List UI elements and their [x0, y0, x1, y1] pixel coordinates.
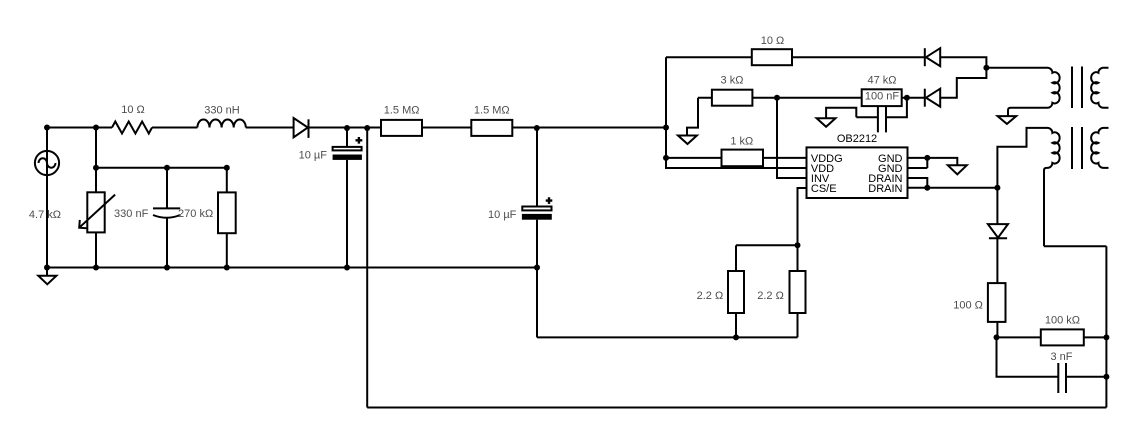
- svg-text:10 Ω: 10 Ω: [121, 104, 145, 116]
- svg-text:10 µF: 10 µF: [299, 150, 328, 162]
- svg-text:47 kΩ: 47 kΩ: [867, 75, 896, 87]
- svg-text:CS/E: CS/E: [811, 183, 837, 195]
- svg-text:100 Ω: 100 Ω: [953, 299, 983, 311]
- svg-text:1.5 MΩ: 1.5 MΩ: [384, 104, 420, 116]
- svg-text:100 kΩ: 100 kΩ: [1045, 314, 1080, 326]
- svg-text:330 nF: 330 nF: [114, 208, 149, 220]
- svg-text:2.2 Ω: 2.2 Ω: [697, 290, 724, 302]
- svg-text:OB2212: OB2212: [837, 133, 877, 145]
- svg-text:1.5 MΩ: 1.5 MΩ: [474, 104, 510, 116]
- svg-text:2.2 Ω: 2.2 Ω: [757, 290, 784, 302]
- svg-text:3 kΩ: 3 kΩ: [721, 75, 744, 87]
- svg-text:4.7 kΩ: 4.7 kΩ: [29, 209, 61, 221]
- svg-text:3 nF: 3 nF: [1050, 351, 1072, 363]
- svg-text:10 µF: 10 µF: [488, 209, 517, 221]
- svg-text:DRAIN: DRAIN: [868, 183, 902, 195]
- svg-text:100 nF: 100 nF: [865, 91, 900, 103]
- svg-text:1 kΩ: 1 kΩ: [730, 135, 753, 147]
- svg-text:330 nH: 330 nH: [204, 105, 240, 117]
- svg-text:10 Ω: 10 Ω: [761, 35, 785, 47]
- svg-text:270 kΩ: 270 kΩ: [178, 208, 213, 220]
